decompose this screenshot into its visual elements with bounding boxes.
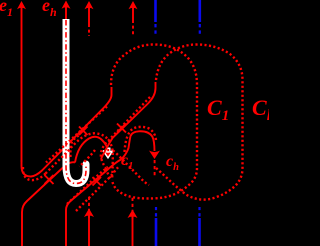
top dashed arrow x=133: [132, 6, 134, 20]
dotted C1: bottom-left corner: [106, 168, 112, 180]
bottom arrow x=132.5: [132, 214, 134, 246]
dashed hidden part of c_h below arrow: [154, 160, 156, 177]
white-backed gap above c1 arrowhead: [106, 148, 111, 152]
label e_h: [42, 0, 57, 18]
blue line bottom-left: [155, 218, 158, 246]
arc e_h: top arrow stub above white band: [65, 6, 67, 21]
white highlighted J curve (section): [66, 19, 90, 184]
circle c_h solid arch (n2): [121, 131, 155, 159]
diagonal from c1 arrow up-right to C_h left side (D2): [101, 82, 156, 159]
dotted circles C1 and C_h: [23, 45, 243, 212]
arrow mark on e1 upper diagonal: [79, 127, 88, 136]
arrow mark on d2: [45, 175, 54, 184]
dotted chain descending right of c1 label: [113, 151, 149, 186]
label C1: [207, 97, 229, 124]
label c_h: [166, 154, 179, 174]
blue line top-left: [156, 0, 200, 246]
label e1: [0, 0, 13, 18]
dotted C1: left finger upper flank along e1 diagonal: [46, 107, 107, 163]
arc e1: top vertical with arrow: [21, 6, 23, 162]
dotted wrap around white hook end: [80, 150, 96, 167]
arrowhead down on c_h arch: [149, 151, 160, 160]
dotted flank upper-left of d3: [67, 167, 108, 204]
bottom solid line x=66 rising diagonally (d3) toward circle c_h: [66, 160, 121, 246]
dotted C1: top, right side and bottom: [111, 45, 197, 199]
blue line top-right: [199, 0, 202, 22]
label c1: [121, 153, 133, 173]
blue line bottom-right: [198, 218, 201, 246]
dotted hug along right side of white J: [70, 135, 80, 157]
dotted shadow over circle c_h: [125, 127, 157, 152]
circle c1 solid arch (n1): [75, 137, 108, 163]
red dash-dot core of white J: [66, 20, 86, 184]
dotted C_h: top, right side and bottom-left descent: [156, 45, 243, 200]
dotted C1: lower flank crossing white J and over circle c1: [46, 133, 113, 180]
white-outlined arrowhead of c1: [103, 151, 113, 158]
bottom arrow x=89: [88, 213, 90, 246]
arrow mark on D2: [117, 124, 126, 133]
top dashed arrow x=89: [88, 6, 90, 24]
bottom solid line x=22 rising diagonally (d2) to circle c1 arc: [22, 162, 75, 246]
label C_h: [252, 97, 275, 124]
dotted C_h: left finger upper flank along D2: [101, 97, 150, 168]
dotted C1: wrap under e1 U-turn: [23, 167, 46, 180]
arrow mark on d3: [93, 177, 102, 186]
arc e1: U-turn and diagonal up to C1: [22, 87, 112, 177]
dotted flank lower-right of d3: [76, 166, 119, 211]
